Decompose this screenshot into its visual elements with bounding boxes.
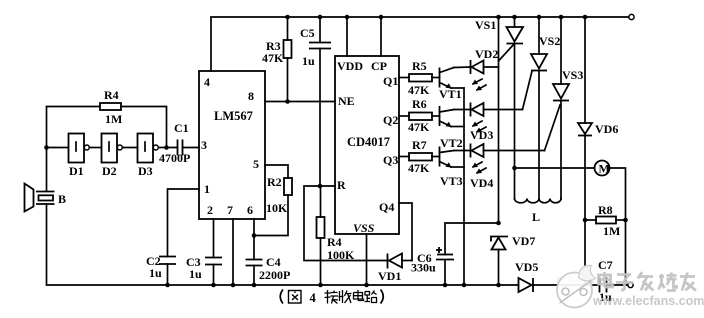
svg-text:Q2: Q2 [383,113,398,127]
thyristor VS2 [523,15,548,199]
svg-text:VT2: VT2 [440,136,463,150]
watermark text dianzifashaoyou [599,272,697,291]
capacitor C3 [205,258,222,288]
svg-text:2: 2 [207,203,213,217]
resistor R6 [399,113,440,121]
svg-text:VS1: VS1 [475,18,496,32]
inverter D1 [47,134,90,163]
svg-text:www.elecfans.com: www.elecfans.com [592,294,704,308]
svg-text:100K: 100K [327,248,355,262]
svg-text:VD3: VD3 [470,128,493,142]
svg-text:2200P: 2200P [259,268,290,282]
resistor R8 [583,217,628,224]
capacitor C4 [246,260,263,288]
wire motor to right branch [610,168,626,285]
node input junction [44,145,49,150]
wire bottom rail to terminal [607,284,628,286]
svg-text:C4: C4 [266,255,281,269]
resistor R4 100K [317,186,325,287]
resistor R5 [399,74,440,82]
diode VD1 [388,254,413,269]
svg-text:4: 4 [204,75,210,89]
svg-text:D3: D3 [138,164,153,178]
inverter D3 [122,134,158,163]
svg-text:VT1: VT1 [439,87,462,101]
wire bottom ground rail left segment [47,204,519,285]
diode VD5 [519,278,534,292]
svg-text:Q1: Q1 [383,74,398,88]
diode VD2 [454,60,499,91]
svg-text:B: B [58,192,66,206]
capacitor C1 [178,140,200,156]
wire pin2 to C3 [213,219,215,258]
svg-text:47K: 47K [262,51,284,65]
svg-text:6: 6 [247,203,253,217]
capacitor C7 [600,278,607,293]
wire pin7 to ground rail [231,219,236,287]
svg-text:R5: R5 [412,59,427,73]
watermark logo circle [557,265,596,307]
svg-text:1M: 1M [603,224,620,238]
caption (图 4 接收电路) [280,290,301,304]
svg-text:7: 7 [227,203,233,217]
svg-text:L: L [532,210,540,224]
svg-text:VD4: VD4 [470,176,493,190]
wire bottom rail right segment [534,284,599,286]
svg-text:CP: CP [371,59,387,73]
svg-text:4700P: 4700P [159,151,190,165]
svg-text:R6: R6 [412,97,427,111]
thyristor VS3 [545,15,570,199]
svg-text:C7: C7 [598,258,613,272]
svg-text:M: M [599,162,610,176]
wire VSS to ground [364,234,369,287]
inverter D2 [89,134,122,163]
svg-text:VS2: VS2 [539,34,560,48]
svg-text:1: 1 [204,182,210,196]
wire pin1 to C2 [168,189,200,257]
svg-text:C5: C5 [300,26,315,40]
svg-text:VT3: VT3 [440,174,463,188]
svg-text:NE: NE [338,94,355,108]
node D3 output junction [158,145,177,150]
svg-text:10K: 10K [266,201,288,215]
svg-text:330u: 330u [411,261,436,275]
wire motor line [512,166,594,171]
diode VD3 [454,103,523,133]
transistor VT2 [440,106,465,127]
svg-text:1u: 1u [189,267,202,281]
svg-text:CD4017: CD4017 [347,135,390,149]
svg-text:VSS: VSS [353,221,375,235]
svg-text:Q4: Q4 [379,200,394,214]
svg-text:1u: 1u [302,54,315,68]
svg-text:D1: D1 [69,164,84,178]
svg-text:47K: 47K [408,120,430,134]
svg-text:1M: 1M [105,112,122,126]
svg-text:VD5: VD5 [515,260,538,274]
wire R node to reset line [304,186,388,261]
capacitor C5 [309,15,331,186]
wire top supply rail [211,17,630,71]
svg-text:R4: R4 [104,88,119,102]
svg-text:VD6: VD6 [595,122,618,136]
diode VD4 [454,144,545,174]
terminal bottom-right open circle [628,282,633,287]
resistor R2 [254,165,292,236]
diode VD6 [578,15,592,285]
svg-text:47K: 47K [408,161,430,175]
svg-text:1u: 1u [149,266,162,280]
transistor VT1 [440,68,465,89]
wire CP to rail [379,15,384,56]
motor M [595,161,610,176]
svg-text:R7: R7 [412,138,427,152]
transistor VT3 [440,147,465,168]
svg-text:R8: R8 [598,203,613,217]
thyristor VS1 [499,15,524,199]
svg-text:VD1: VD1 [378,269,401,283]
svg-text:R: R [337,178,346,192]
svg-text:LM567: LM567 [214,109,253,123]
svg-text:R4: R4 [327,235,342,249]
svg-text:3: 3 [201,138,207,152]
wire pin8 to NE [265,101,335,103]
svg-text:VDD: VDD [337,59,363,73]
wire power feed vertical [496,15,501,226]
svg-text:VD2: VD2 [475,47,498,61]
svg-text:VS3: VS3 [562,68,583,82]
wire common emitter line [462,88,467,287]
svg-text:Q3: Q3 [383,153,398,167]
inductor L coil [515,199,562,203]
terminal top-right open circle [629,14,634,19]
svg-text:D2: D2 [102,164,117,178]
svg-text:5: 5 [253,157,259,171]
resistor R3 [284,15,292,104]
capacitor C2 [159,257,176,288]
zener VD7 [491,237,508,288]
node R junction [318,184,335,189]
op-amp U2 CD4017 [335,56,399,234]
op-amp U1 LM567 [199,71,265,219]
svg-text:47K: 47K [408,83,430,97]
svg-text:VD7: VD7 [512,234,535,248]
svg-text:4: 4 [310,291,317,305]
svg-text:R2: R2 [267,175,282,189]
speaker B [25,148,55,212]
wire pin6 down [252,219,257,260]
resistor R7 [399,153,440,161]
resistor R4 feedback [47,103,167,148]
svg-text:8: 8 [248,89,254,103]
wire VDD to rail [345,15,350,56]
svg-text:C1: C1 [174,121,189,135]
wire Q4 to VD1 [399,203,412,261]
capacitor C6 electrolytic [436,223,499,287]
